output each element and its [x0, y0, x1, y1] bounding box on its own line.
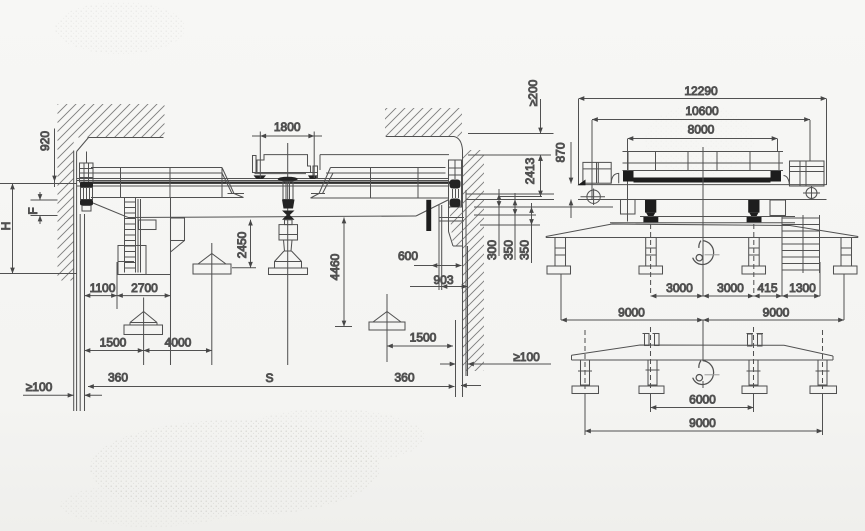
svg-text:350: 350: [502, 240, 516, 260]
buffer box right: [770, 200, 786, 216]
crane wheel unit 2: [747, 200, 762, 222]
svg-text:870: 870: [554, 142, 568, 162]
dimension 8000: [628, 139, 778, 222]
svg-text:4460: 4460: [328, 253, 342, 280]
svg-text:903: 903: [433, 273, 453, 287]
right girder: [311, 155, 450, 198]
svg-text:≥100: ≥100: [26, 380, 53, 394]
bottom center dashlines: [585, 327, 823, 389]
ladder right: [782, 215, 820, 296]
dimension F reference ticks: [31, 200, 58, 216]
dim 9000 (bottom): [585, 394, 823, 435]
svg-text:1500: 1500: [100, 336, 127, 350]
trolley (end view): [253, 155, 318, 179]
left girder: [91, 168, 244, 198]
bridge girder (side view): [578, 185, 827, 200]
dimension 12290: [579, 99, 827, 186]
svg-text:1300: 1300: [789, 281, 816, 295]
svg-text:3000: 3000: [666, 281, 693, 295]
crane wheel unit 1: [643, 200, 658, 222]
H reference lines: [0, 184, 77, 274]
building column w/ ladder: [118, 198, 185, 365]
svg-text:9000: 9000: [763, 306, 790, 320]
svg-text:8000: 8000: [688, 123, 715, 137]
beam top fittings: [643, 334, 764, 347]
bridge rail band lines (full width): [77, 179, 450, 187]
wheel center dashlines: [651, 224, 754, 296]
svg-text:360: 360: [394, 371, 414, 385]
svg-text:4000: 4000: [165, 336, 192, 350]
svg-text:H: H: [0, 222, 13, 231]
end carriage lines: [610, 217, 795, 223]
bottom hanger posts: [578, 360, 830, 385]
bottom beam view: [572, 345, 834, 360]
right end box: [784, 161, 825, 200]
left wall hatch band: [58, 138, 77, 412]
dimension 2450: [232, 220, 256, 268]
left end truck wheel: [80, 182, 93, 211]
walkway line under bridge: [93, 200, 449, 218]
dimension 300: [498, 189, 500, 256]
svg-text:300: 300: [485, 240, 499, 260]
dimension >=200: [540, 99, 542, 168]
svg-text:600: 600: [398, 249, 418, 263]
hanger post 4: [834, 238, 858, 275]
svg-text:≥100: ≥100: [513, 350, 540, 364]
bottom pads: [572, 386, 837, 394]
buffer box left: [621, 200, 636, 215]
dimension 1800: [252, 132, 322, 179]
bottom hook: [693, 320, 720, 388]
dimension 600: [414, 205, 462, 290]
transfer lines between views: [468, 134, 554, 197]
svg-text:S: S: [265, 371, 273, 385]
dimension 903: [410, 246, 468, 376]
svg-text:360: 360: [108, 371, 128, 385]
svg-text:10600: 10600: [685, 104, 719, 118]
svg-text:2413: 2413: [523, 157, 537, 184]
svg-text:2450: 2450: [235, 231, 249, 258]
dimension 1500 4000: [85, 350, 212, 352]
runway beam (middle): [546, 224, 858, 238]
svg-text:≥200: ≥200: [526, 79, 540, 106]
trolley rail (black): [623, 171, 781, 183]
black support bar: [426, 200, 431, 231]
svg-text:920: 920: [38, 131, 52, 151]
dimension 10600: [592, 120, 810, 200]
dims 9000 9000: [561, 274, 844, 320]
svg-text:1100: 1100: [90, 281, 116, 295]
right wall corbel: [439, 200, 464, 246]
landing pad 2: [193, 243, 231, 365]
center line of span: [702, 147, 704, 222]
right end truck frame: [449, 160, 462, 207]
right ceiling hatch band: [385, 108, 463, 150]
dimension 360 S 360: [88, 386, 481, 387]
dimension 1500 (right): [387, 320, 456, 397]
dimension 2413: [540, 155, 542, 197]
svg-text:3000: 3000: [717, 281, 744, 295]
dimension F: [39, 192, 41, 224]
hanger post 3: [742, 238, 766, 275]
dimension 350 (second): [531, 203, 533, 263]
svg-text:9000: 9000: [618, 306, 645, 320]
stack dims 300 350 350 reference lines: [466, 194, 613, 225]
hook (middle view): [693, 241, 720, 265]
svg-text:F: F: [26, 207, 40, 214]
handrail: [623, 152, 784, 172]
hanger post 2: [639, 238, 663, 275]
svg-text:12290: 12290: [684, 84, 718, 98]
hanger post 1: [547, 238, 571, 275]
dimension >=100 (left): [23, 394, 102, 396]
svg-text:350: 350: [518, 240, 532, 260]
dimension 1100 2700: [85, 262, 171, 309]
dimension H: [12, 184, 14, 274]
svg-text:415: 415: [757, 281, 777, 295]
right wall hatch band: [463, 150, 485, 397]
svg-text:1500: 1500: [410, 331, 437, 345]
svg-text:6000: 6000: [689, 393, 716, 407]
left end box (cab): [578, 162, 619, 205]
dimension 920: [54, 129, 56, 188]
dimension >=100 (right view): [440, 363, 551, 365]
hook block assembly (center): [269, 143, 308, 365]
svg-text:2700: 2700: [131, 281, 158, 295]
dimension 870: [570, 142, 572, 218]
landing pad 1: [124, 298, 163, 366]
dims 3000 3000 415 1300: [651, 247, 820, 296]
dimension 4460: [335, 218, 352, 327]
left end truck frame: [80, 152, 94, 183]
dim 6000: [651, 394, 754, 412]
left ceiling hatch band: [58, 104, 165, 152]
svg-text:1800: 1800: [274, 120, 301, 134]
left crane rail lines: [80, 214, 84, 411]
svg-text:9000: 9000: [689, 416, 716, 430]
landing pad 4: [369, 294, 405, 362]
dimension 350: [514, 193, 516, 260]
